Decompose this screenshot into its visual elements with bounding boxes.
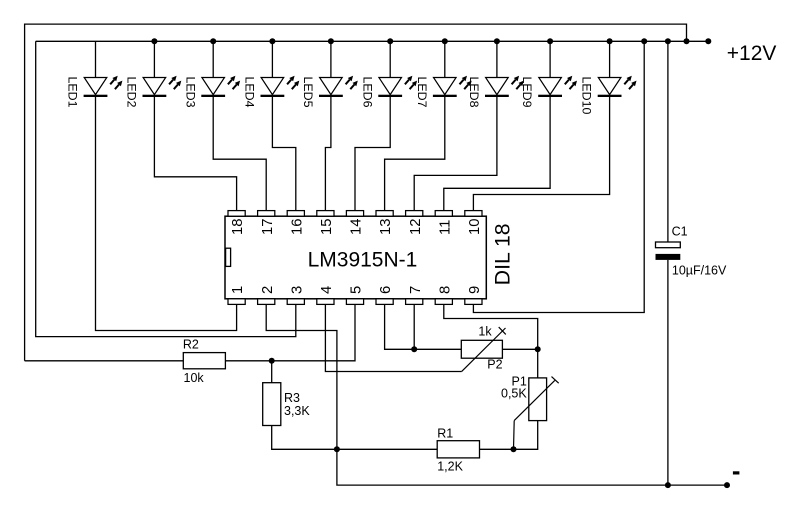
svg-text:13: 13 [378,219,394,235]
pin 11 box (top) [435,211,452,217]
wire LED4 cathode to pin 16 [272,97,295,211]
wire LED5 cathode to pin 15 [325,97,331,211]
pin 15 box (top) [317,211,334,217]
junction LED2 anode on rail [151,38,157,44]
svg-text:16: 16 [289,219,305,235]
svg-text:LED8: LED8 [467,77,481,108]
svg-text:6: 6 [378,286,394,294]
junction LED9 anode on rail [547,38,553,44]
junction R3-R1 wire / ground drop [334,446,340,452]
svg-text:18: 18 [230,219,246,235]
wire LED1 anode to rail [95,41,97,77]
svg-text:0,5K: 0,5K [501,387,527,401]
pin 16 box (top) [287,211,304,217]
LED LED4 [261,76,300,97]
junction P2/pin8/P1 [535,346,541,352]
LED LED7 [433,76,472,97]
wire LED9 anode to rail [549,41,551,77]
LED LED10 [598,76,637,97]
junction LED6 anode on rail [387,38,393,44]
svg-text:5: 5 [349,286,365,294]
pin 6 box (bottom) [376,299,393,305]
wire R2 right to node [225,360,271,362]
op-amp U1 LM3915N-1 body [225,216,486,299]
svg-text:LM3915N-1: LM3915N-1 [308,249,418,272]
wire LED6 anode to rail [389,41,391,77]
svg-text:R2: R2 [183,337,199,351]
svg-text:3,3K: 3,3K [284,404,310,418]
svg-text:LED6: LED6 [360,77,374,108]
wire LED8 cathode to pin 12 [414,97,497,211]
wire LED2 anode to rail [153,41,155,77]
svg-text:12: 12 [408,219,424,235]
svg-text:4: 4 [319,286,335,294]
pin 12 box (top) [406,211,423,217]
wire pin 7 REFOUT to node [413,304,415,349]
svg-text:LED2: LED2 [125,77,139,108]
svg-text:17: 17 [260,219,276,235]
pin 7 box (bottom) [406,299,423,305]
P1 wiper arrow [514,377,559,450]
wire LED8 anode to rail [496,41,498,77]
wire LED3 cathode to pin 17 [213,97,266,211]
svg-text:LED10: LED10 [580,77,594,115]
svg-text:1,2K: 1,2K [437,460,463,474]
wire pin 6 RHI to P2 left [385,304,462,349]
wire border to R2 left [25,360,184,362]
wire pin 4 RLO to P2 wiper [325,304,461,371]
resistor R2 [183,353,225,369]
label minus terminal [733,471,740,474]
wire pin 2 V- to ground rail [266,304,727,485]
junction ground rail right end [724,482,730,488]
wire LED10 cathode to pin 10 [473,97,609,211]
svg-text:14: 14 [349,219,365,235]
capacitor C1 (electrolytic) [656,242,681,260]
svg-text:LED4: LED4 [243,77,257,108]
svg-text:LED7: LED7 [415,77,429,108]
svg-text:10µF/16V: 10µF/16V [672,264,727,278]
pin 3 box (bottom) [287,299,304,305]
pin 5 box (bottom) [346,299,363,305]
pin 13 box (top) [376,211,393,217]
pin 14 box (top) [346,211,363,217]
svg-text:+12V: +12V [727,42,777,65]
potentiometer P2 body [461,340,502,358]
svg-text:7: 7 [408,286,424,294]
svg-text:1: 1 [230,286,246,294]
wire C1 bottom to ground rail [667,260,669,485]
node +12V rail [36,40,709,42]
wire LED9 cathode to pin 11 [444,97,550,211]
wire +12V feed via outer border [25,24,687,361]
svg-text:LED9: LED9 [520,77,534,108]
junction LED4 anode on rail [269,38,275,44]
pin 17 box (top) [258,211,275,217]
P2 wiper arrow [462,327,506,371]
pin 18 box (top) [228,211,245,217]
pin 1 box (bottom) [228,299,245,305]
svg-text:R1: R1 [437,427,453,441]
pin 9 box (bottom) [465,299,482,305]
pin 4 box (bottom) [317,299,334,305]
wire +12V rail to pin 3 V+ [36,41,296,336]
resistor R3 [263,383,281,426]
LED LED5 [319,76,358,97]
junction pins 6/7 [411,346,417,352]
wire LED2 cathode to pin 18 [154,97,236,211]
junction border feed on rail [684,38,690,44]
junction LED3 anode on rail [210,38,216,44]
wire LED4 anode to rail [271,41,273,77]
LED LED1 [84,76,123,97]
resistor R1 [437,441,479,458]
svg-text:LED3: LED3 [183,77,197,108]
wire LED6 cathode to pin 14 [355,97,390,211]
wire LED7 cathode to pin 13 [385,97,445,211]
LED LED6 [378,76,417,97]
junction pin9 wire on rail [641,38,647,44]
svg-text:LED5: LED5 [301,77,315,108]
svg-text:DIL 18: DIL 18 [491,223,515,285]
junction LED7 anode on rail [442,38,448,44]
junction P1 wiper on R1 wire [511,446,517,452]
LED LED2 [143,76,182,97]
wire rail to C1 top [667,41,669,242]
LED LED8 [485,76,524,97]
svg-text:9: 9 [467,286,483,294]
wire pin 5 signal input to R2/R3 node [272,304,355,360]
wire LED5 anode to rail [330,41,332,77]
junction LED10 anode on rail [607,38,613,44]
svg-text:8: 8 [437,286,453,294]
svg-text:3: 3 [289,286,305,294]
potentiometer P1 body [529,378,547,421]
junction rail right end [705,38,711,44]
junction C1 on rail [665,38,671,44]
LED LED3 [201,76,240,97]
svg-text:2: 2 [260,286,276,294]
IC pin-1 index notch [226,248,231,266]
wire R1 right to P1 bottom [480,421,538,450]
LED LED9 [538,76,577,97]
svg-text:1k: 1k [478,324,492,338]
svg-text:10k: 10k [184,371,205,385]
svg-text:10: 10 [467,219,483,235]
junction LED5 anode on rail [328,38,334,44]
wire LED3 anode to rail [212,41,214,77]
wire pin 9 mode to +12V rail [473,41,644,312]
pin 8 box (bottom) [435,299,452,305]
wire P2 right to P1 node [502,348,537,350]
svg-text:11: 11 [437,220,453,235]
svg-text:C1: C1 [672,225,688,239]
wire R3 bottom to R1 left [272,426,438,450]
junction R2/R3/pin5 [269,358,275,364]
wire LED7 anode to rail [444,41,446,77]
junction LED8 anode on rail [494,38,500,44]
pin 10 box (top) [465,211,482,217]
wire LED1 cathode to pin 1 [96,97,237,331]
wire node to R3 top [271,361,273,383]
pin 2 box (bottom) [258,299,275,305]
junction C1 on ground rail [665,482,671,488]
wire pin 8 REFADJ to P1 top [444,304,538,378]
wire LED10 anode to rail [609,41,611,77]
svg-text:LED1: LED1 [66,77,80,108]
svg-text:15: 15 [319,219,335,235]
svg-text:P2: P2 [487,357,502,371]
